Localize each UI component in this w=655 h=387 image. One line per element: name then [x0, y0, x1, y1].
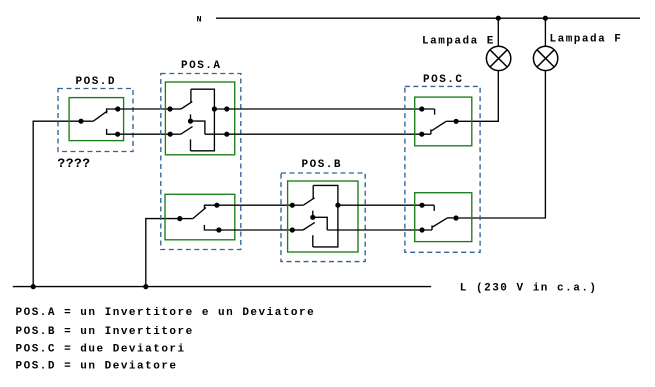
wire POS.B bottom to POS.C [327, 229, 432, 231]
net N (neutral) wire [216, 17, 640, 19]
svg-text:POS.D: POS.D [76, 76, 117, 88]
POS.A deviatore switch [177, 203, 221, 233]
junction L / POS.D branch [31, 284, 36, 289]
svg-text:N: N [197, 14, 202, 24]
svg-text:????: ???? [57, 156, 90, 171]
wire lamp E to POS.C top common [456, 71, 498, 122]
svg-text:L (230 V in c.a.): L (230 V in c.a.) [460, 283, 598, 295]
wire POS.A deviatore bottom contact to POS.B [215, 229, 292, 231]
wire POS.B top to POS.C [338, 204, 434, 206]
wire lamp F to POS.C bottom common [456, 71, 545, 218]
svg-text:POS.B = un Invertitore: POS.B = un Invertitore [16, 326, 194, 338]
lamp E [486, 46, 510, 70]
junction L / POS.A branch [143, 284, 148, 289]
svg-text:POS.D = un Deviatore: POS.D = un Deviatore [16, 361, 178, 373]
POS.C top green box [415, 97, 472, 146]
net L (line) wire [13, 286, 431, 288]
POS.A invertitore green box [165, 82, 234, 155]
junction N / lamp F [543, 16, 548, 21]
wire POS.A invertitore top to POS.C [214, 108, 434, 110]
POS.A invertitore [167, 89, 229, 151]
lamp F [533, 46, 557, 70]
wire L to POS.D common [33, 121, 81, 286]
POS.D green box [69, 98, 124, 141]
POS.C bottom deviatore switch [419, 203, 458, 233]
svg-text:POS.A = un Invertitore e un De: POS.A = un Invertitore e un Deviatore [16, 307, 316, 319]
POS.A deviatore green box [165, 194, 235, 240]
svg-text:POS.A: POS.A [181, 60, 222, 72]
wire L to POS.A deviatore common [146, 219, 180, 287]
svg-text:Lampada F: Lampada F [550, 34, 623, 46]
wire N to lamp E [497, 18, 499, 46]
svg-text:POS.C = due Deviatori: POS.C = due Deviatori [16, 344, 186, 356]
svg-text:POS.B: POS.B [302, 159, 343, 171]
POS.D dashed enclosure [58, 89, 133, 152]
wire N to lamp F [544, 18, 546, 46]
POS.D deviatore switch [78, 106, 120, 136]
svg-text:POS.C: POS.C [423, 74, 464, 86]
POS.A dashed enclosure [161, 74, 241, 250]
POS.B invertitore [290, 185, 341, 247]
junction N / lamp E [496, 16, 501, 21]
svg-text:Lampada E: Lampada E [422, 36, 495, 48]
wire POS.A deviatore top contact to POS.B [213, 204, 292, 206]
POS.C top deviatore switch [419, 106, 459, 136]
wire POS.D bottom contact to POS.A [114, 133, 170, 135]
POS.B green box [288, 181, 358, 252]
POS.C bottom green box [415, 193, 472, 242]
POS.C dashed enclosure [405, 86, 480, 252]
wire POS.D top contact to POS.A [114, 108, 170, 110]
wire POS.A invertitore bottom to POS.C [205, 133, 431, 135]
POS.B dashed enclosure [281, 173, 365, 262]
